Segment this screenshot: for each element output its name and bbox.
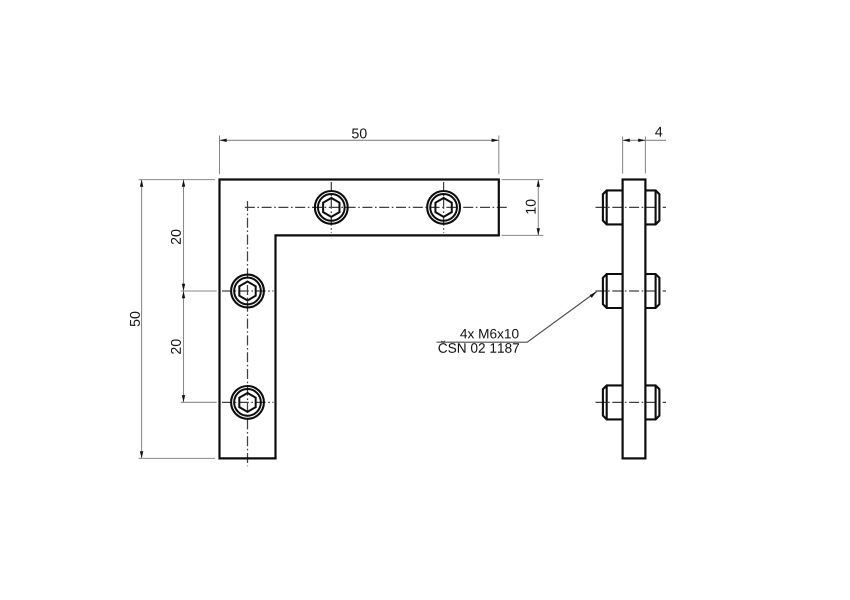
centerline: horizontal axis of top arm holes	[245, 206, 507, 208]
text: 20	[171, 339, 181, 354]
dimension 20 upper: lines	[181, 180, 217, 403]
screw 2 (top arm, right)	[427, 191, 460, 224]
centerline: top screw axis	[596, 206, 667, 208]
leader line to middle screw	[437, 292, 597, 343]
centerline: vertical tick through hole 2	[443, 182, 445, 233]
dimension 10 right: lines	[502, 180, 544, 236]
text: 4	[655, 127, 662, 137]
centerline: bottom screw axis	[596, 401, 667, 403]
text: 10	[526, 199, 536, 213]
dimension 50 top: arrows	[220, 139, 227, 142]
centerline: horizontal tick through hole 4	[222, 401, 274, 403]
leader arrow	[590, 292, 597, 298]
dimension 10 right: arrows	[537, 180, 540, 187]
screw 4 (left arm, lower)	[231, 386, 264, 419]
centerline: vertical tick through hole 1	[330, 182, 332, 233]
side screw 3 head	[603, 385, 623, 419]
L-bracket outline	[220, 180, 499, 459]
side screw 3 end	[645, 385, 659, 419]
text: 50	[130, 312, 140, 327]
dimension 50 top: extension lines	[220, 136, 499, 175]
centerline: horizontal tick through hole 3	[222, 290, 274, 292]
screw 3 (left arm, upper)	[231, 275, 264, 308]
dimension 50 left: arrows	[140, 180, 143, 187]
screw 1 (top arm, left)	[315, 191, 348, 224]
dimension 4: arrows	[623, 139, 630, 142]
side plate	[623, 180, 646, 459]
centerline: middle screw axis	[596, 290, 667, 292]
text: 4x M6x10	[460, 329, 518, 339]
text: 20	[171, 230, 181, 245]
dimension 50 left: extension lines	[139, 180, 215, 459]
side screw 2 end	[645, 274, 659, 308]
dimension 4: lines	[623, 137, 666, 174]
dimension 20 upper: arrows	[182, 180, 185, 187]
side screw 1 head	[603, 190, 623, 224]
text: CSN 02 1187	[438, 341, 519, 353]
side screw 1 end	[645, 190, 659, 224]
centerline: vertical axis of left arm holes	[247, 201, 249, 466]
text: 50	[352, 128, 367, 138]
side screw 2 head	[603, 274, 623, 308]
